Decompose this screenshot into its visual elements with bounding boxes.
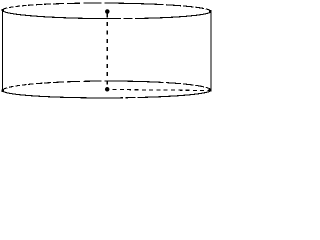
center dot of top face — [105, 9, 110, 14]
top ellipse: front rim (solid) — [2, 10, 211, 18]
central axis (dashed) between the two center dots — [106, 14, 108, 87]
rim tip junction bottom-left — [2, 90, 4, 92]
cylinder right side edge — [210, 11, 212, 90]
top ellipse: hidden back rim (dashed) — [2, 3, 211, 11]
rim tip junction top-right — [209, 10, 212, 13]
cylinder left side edge — [1, 10, 3, 90]
bottom ellipse: hidden back rim (dashed) — [2, 81, 210, 91]
dashed radius line from bottom center to right rim — [110, 90, 210, 91]
center dot of bottom face — [105, 87, 110, 92]
cylinder diagram — [0, 0, 214, 106]
rim tip junction top-left — [2, 9, 4, 11]
rim tip junction bottom-right — [209, 89, 212, 91]
bottom ellipse: front rim (solid) — [2, 90, 210, 98]
